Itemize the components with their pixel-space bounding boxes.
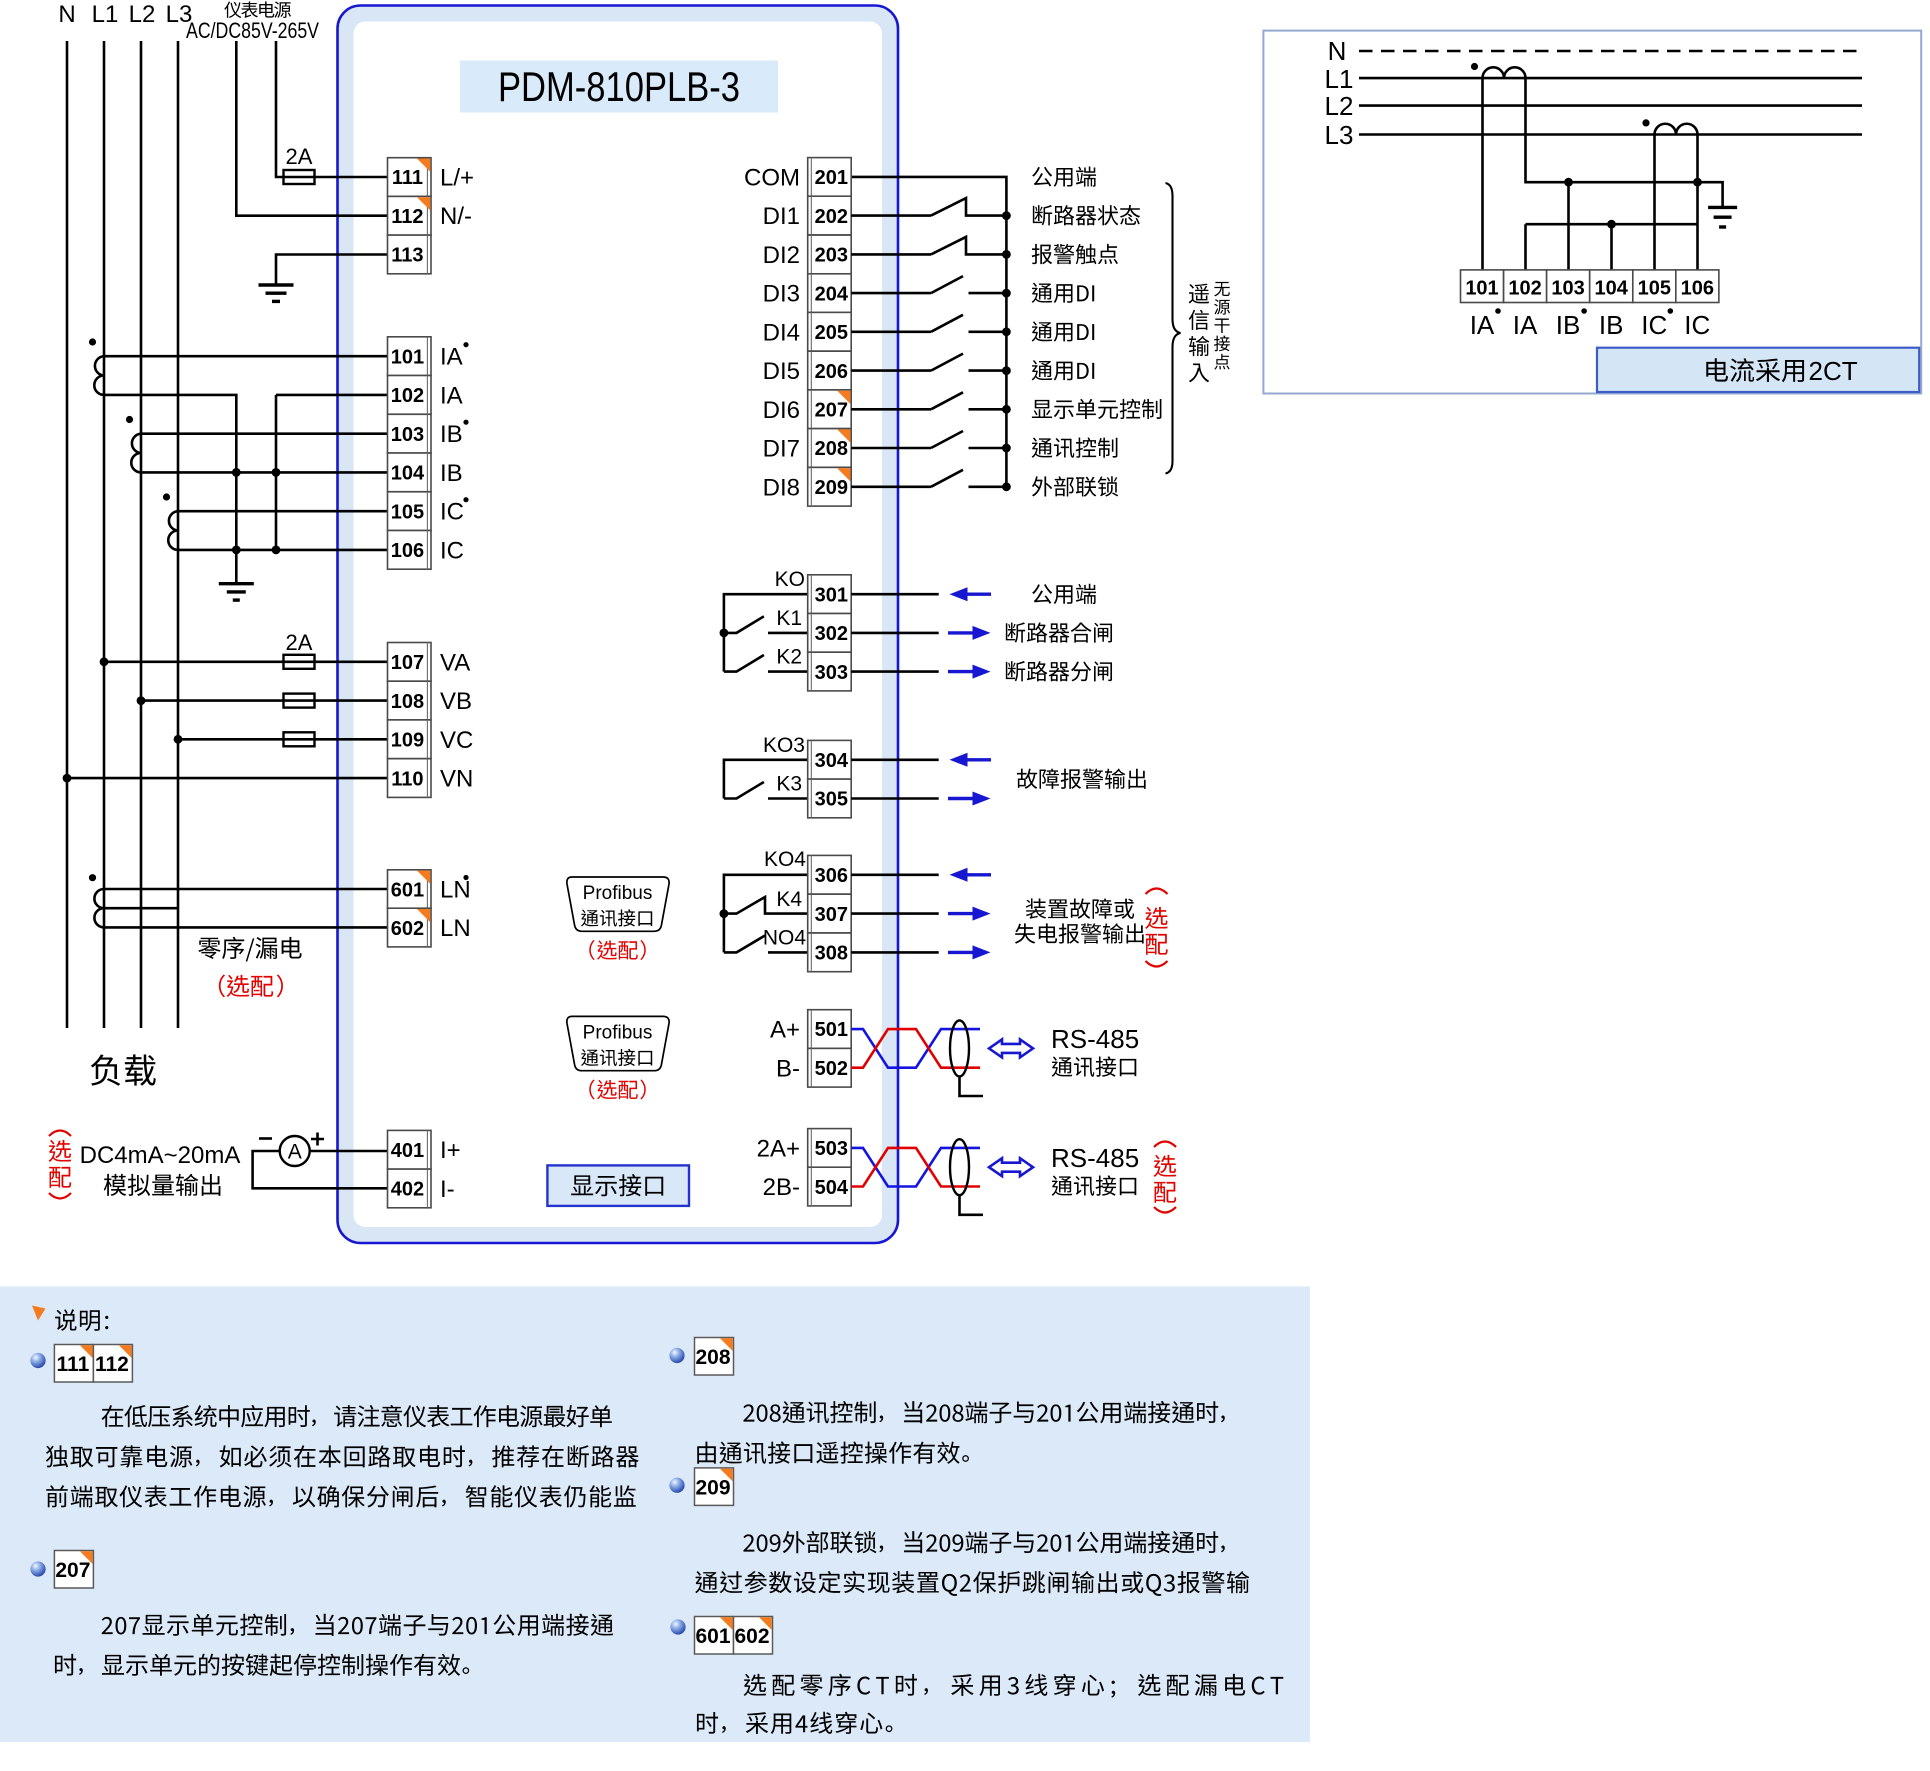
- 2CT terminal 105: [1633, 270, 1676, 303]
- svg-text:DI5: DI5: [763, 358, 800, 385]
- svg-text:201: 201: [815, 167, 848, 189]
- label 202 断路器状态: [1033, 205, 1140, 225]
- 2CT common line B: [1526, 224, 1698, 270]
- svg-text:502: 502: [815, 1058, 848, 1080]
- wire 301 stub: [851, 593, 939, 596]
- label 失电报警输出: [1015, 923, 1144, 943]
- 2CT banner 电流采用2CT: [1597, 348, 1919, 392]
- terminal 104: [388, 453, 432, 492]
- svg-text:202: 202: [815, 206, 848, 228]
- ground symbol CT common: [219, 584, 254, 600]
- label 断路器合闸: [1006, 622, 1112, 642]
- 2CT wire 105 drop: [1653, 135, 1656, 270]
- 2CT terminal 104: [1590, 270, 1633, 303]
- terminal 307: [808, 894, 852, 933]
- svg-text:IB: IB: [1599, 310, 1624, 340]
- svg-text:A: A: [288, 1141, 302, 1164]
- device outline PDM-810PLB-3 rounded rect: [338, 6, 899, 1244]
- label 断路器分闸: [1006, 661, 1112, 681]
- label 模拟量输出: [104, 1174, 221, 1196]
- svg-text:101: 101: [391, 346, 424, 368]
- svg-text:303: 303: [815, 662, 848, 684]
- wire 107 VA: [104, 660, 388, 663]
- terminal 103: [388, 414, 432, 453]
- 2CT junction dot 106 on line A: [1693, 178, 1702, 187]
- note text 111 line3: [46, 1485, 635, 1507]
- note text 601 line2: [697, 1712, 892, 1734]
- 2CT junction dot 104: [1607, 220, 1616, 229]
- svg-text:IA: IA: [1513, 310, 1538, 340]
- svg-text:I-: I-: [440, 1176, 455, 1203]
- svg-text:VC: VC: [440, 727, 473, 754]
- wire 601 LN*: [104, 888, 388, 891]
- terminal 205: [808, 312, 852, 351]
- label 通讯接口 #2: [1052, 1175, 1137, 1195]
- svg-text:208: 208: [815, 438, 848, 460]
- label 负载: [91, 1054, 156, 1085]
- terminal 208: [808, 429, 852, 468]
- tap dot VB: [137, 696, 146, 705]
- junction dot 203: [1002, 250, 1011, 259]
- svg-text:KO4: KO4: [764, 848, 806, 871]
- relay K4 common wire: [724, 875, 808, 953]
- DI contact 203 (closed): [851, 253, 931, 256]
- svg-text:DI3: DI3: [763, 281, 800, 308]
- terminal 501: [808, 1010, 852, 1049]
- tap dot VA: [100, 657, 109, 666]
- svg-text:LN: LN: [440, 877, 471, 904]
- label (选配) profibus2: [589, 1080, 645, 1100]
- terminal 503: [808, 1129, 852, 1168]
- terminal 301: [808, 575, 852, 614]
- svg-text:N: N: [58, 1, 75, 28]
- 2CT CT2 polarity dot: [1642, 119, 1649, 126]
- terminal 108: [388, 681, 432, 720]
- svg-text:DI4: DI4: [763, 319, 800, 346]
- twisted pair RS485-2: [851, 1148, 980, 1187]
- terminal 401: [388, 1130, 432, 1169]
- svg-text:104: 104: [391, 463, 425, 485]
- ammeter minus label: [259, 1137, 272, 1140]
- arrow 303 out: [948, 670, 975, 673]
- double arrow RS485-2: [989, 1158, 1033, 1176]
- 2CT terminal 102: [1504, 270, 1547, 303]
- svg-text:205: 205: [815, 322, 848, 344]
- svg-text:113: 113: [391, 245, 423, 267]
- svg-text:KO: KO: [775, 568, 805, 591]
- terminal 203: [808, 235, 852, 274]
- ammeter plus label: [311, 1133, 324, 1146]
- svg-text:2B-: 2B-: [763, 1174, 800, 1201]
- wire 108 VB: [141, 699, 388, 702]
- wire 305 stub: [851, 797, 939, 800]
- svg-text:DC4mA~20mA: DC4mA~20mA: [80, 1142, 241, 1169]
- junction dot 204: [1002, 289, 1011, 298]
- svg-text:IC: IC: [1684, 310, 1710, 340]
- CT B on L2: [131, 434, 141, 473]
- CT LN (zero-sequence) on L1: [94, 889, 104, 927]
- svg-text:N/-: N/-: [440, 203, 472, 230]
- svg-text:KO3: KO3: [763, 734, 805, 757]
- svg-text:IC: IC: [1641, 310, 1667, 340]
- junction dot K1: [720, 629, 729, 638]
- vertical (选配) relay K4: [1146, 889, 1168, 895]
- shield ground RS485-1: [960, 1076, 984, 1096]
- shield ground RS485-2: [960, 1195, 984, 1215]
- label (选配) zero sequence: [219, 974, 283, 997]
- svg-text:106: 106: [391, 540, 424, 562]
- 2CT junction dot 103: [1564, 178, 1573, 187]
- contact K4 (closed): [724, 897, 808, 914]
- svg-text:107: 107: [391, 652, 424, 674]
- svg-text:IA: IA: [440, 344, 463, 371]
- shield ellipse RS485-1: [950, 1020, 969, 1076]
- relay K3 common wire: [724, 760, 808, 799]
- arrow 301 in: [966, 593, 992, 596]
- terminal 308: [808, 933, 852, 972]
- terminal 107: [388, 643, 432, 682]
- arrow 307 out: [948, 912, 975, 915]
- Profibus connector 2: [567, 1016, 669, 1070]
- svg-text:101: 101: [1465, 278, 1498, 300]
- svg-text:AC/DC85V-265V: AC/DC85V-265V: [186, 18, 319, 43]
- svg-text:209: 209: [695, 1477, 730, 1500]
- label 204 通用DI: [1032, 283, 1095, 303]
- svg-text:L1: L1: [92, 1, 119, 28]
- svg-text:L/+: L/+: [440, 165, 474, 192]
- wire 103 IB*: [141, 432, 388, 435]
- 2CT wire 102 drop + common A: [1526, 78, 1723, 207]
- 2CT CT1 on L1: [1483, 67, 1526, 78]
- tap dot VN: [63, 774, 72, 783]
- 2CT wire 101 drop: [1481, 78, 1484, 270]
- fuse FVC: [284, 732, 315, 746]
- label 209 外部联锁: [1032, 476, 1118, 497]
- svg-text:104: 104: [1595, 278, 1629, 300]
- svg-text:207: 207: [55, 1559, 90, 1582]
- junction dot K4: [720, 909, 729, 918]
- note text 111 line1: [102, 1405, 612, 1427]
- vertical (选配) analog: [49, 1131, 71, 1137]
- terminal 111: [388, 158, 432, 197]
- svg-text:301: 301: [815, 584, 848, 606]
- svg-text:102: 102: [1508, 278, 1541, 300]
- fuse FVB: [284, 694, 315, 708]
- relay K1K2 common wire: [724, 594, 808, 671]
- terminal 112: [388, 196, 432, 235]
- contact K3: [724, 782, 808, 799]
- contact K2: [724, 655, 808, 672]
- svg-text:110: 110: [391, 768, 423, 790]
- note text 208 line1: [743, 1401, 1224, 1423]
- 2CT terminal 106: [1676, 270, 1719, 303]
- svg-text:VB: VB: [440, 688, 472, 715]
- wire 106 IC: [178, 549, 388, 552]
- note text 209 line1: [743, 1531, 1224, 1553]
- bus wire L2: [140, 41, 143, 1028]
- svg-text:207: 207: [815, 400, 848, 422]
- terminal 110: [388, 759, 432, 798]
- svg-text:N: N: [1328, 36, 1347, 66]
- terminal 105: [388, 492, 432, 531]
- svg-text:602: 602: [734, 1625, 769, 1648]
- twisted pair RS485-1: [851, 1029, 980, 1068]
- wire 201 COM to DI bus: [851, 177, 1006, 487]
- svg-text:DI2: DI2: [763, 242, 800, 269]
- svg-text:401: 401: [391, 1140, 424, 1162]
- svg-text:2A: 2A: [286, 630, 313, 655]
- contact NO4: [724, 936, 808, 953]
- svg-text:208: 208: [695, 1346, 730, 1369]
- svg-text:102: 102: [391, 385, 424, 407]
- CT A on L1: [94, 356, 104, 395]
- notes header 说明：: [55, 1309, 108, 1331]
- svg-text:K1: K1: [776, 607, 802, 630]
- terminal 106: [388, 531, 432, 570]
- wire 304 stub: [851, 758, 939, 761]
- svg-text:IC: IC: [440, 537, 464, 564]
- svg-text:105: 105: [1638, 278, 1671, 300]
- bus wire L3: [177, 41, 180, 1028]
- DI contact 209 (open): [851, 485, 931, 488]
- svg-text:DI6: DI6: [763, 397, 800, 424]
- svg-text:302: 302: [815, 623, 848, 645]
- 2CT terminal 101: [1461, 270, 1504, 303]
- svg-text:111: 111: [392, 167, 423, 189]
- tap dot VC: [174, 735, 183, 744]
- terminal 102: [388, 376, 432, 415]
- svg-text:L1: L1: [1325, 64, 1354, 94]
- svg-text:108: 108: [391, 691, 424, 713]
- svg-text:K2: K2: [776, 646, 802, 669]
- Profibus connector 1: [567, 877, 669, 931]
- terminal 601: [388, 870, 432, 909]
- svg-text:306: 306: [815, 865, 848, 887]
- wire 104 IB: [141, 471, 388, 474]
- svg-text:IB: IB: [440, 421, 463, 448]
- wire 302 stub: [851, 632, 939, 635]
- aux power feed wire 1 (to 112): [236, 41, 387, 216]
- junction dot 208: [1002, 444, 1011, 453]
- bus wire N: [66, 41, 69, 1028]
- terminal 303: [808, 652, 852, 691]
- label 仪表电源: [224, 1, 291, 18]
- svg-text:IC: IC: [440, 499, 464, 526]
- svg-text:308: 308: [815, 943, 848, 965]
- svg-text:601: 601: [695, 1625, 730, 1648]
- wire 101 IA*: [104, 355, 388, 358]
- note text 601 line1: [744, 1674, 1284, 1698]
- 2CT wire 104 drop: [1610, 224, 1613, 270]
- aux power feed wire 2 (to 111 via fuse): [276, 41, 388, 177]
- wire 102 IA left segment: [104, 395, 236, 584]
- svg-text:204: 204: [815, 283, 849, 305]
- junction dot 202: [1002, 211, 1011, 220]
- svg-text:602: 602: [391, 918, 424, 940]
- svg-text:IA: IA: [440, 382, 463, 409]
- CT C polarity dot: [163, 493, 170, 500]
- 2CT diagram outer box: [1263, 31, 1921, 394]
- wire 303 stub: [851, 670, 939, 673]
- DI brace: [1166, 183, 1181, 474]
- note bullet 208: [669, 1348, 684, 1363]
- 2CT ground symbol: [1708, 207, 1737, 227]
- terminal 502: [808, 1048, 852, 1087]
- terminal 204: [808, 274, 852, 313]
- svg-text:112: 112: [391, 206, 423, 228]
- svg-text:DI7: DI7: [763, 436, 800, 463]
- label 203 报警触点: [1032, 244, 1118, 264]
- label 201 公用端: [1032, 166, 1096, 186]
- label (选配) profibus1: [589, 940, 645, 960]
- label 故障报警输出: [1017, 769, 1146, 789]
- svg-text:111: 111: [57, 1353, 90, 1376]
- svg-text:DI8: DI8: [763, 474, 800, 501]
- label 装置故障或: [1026, 898, 1134, 918]
- wire 110 VN: [67, 777, 388, 780]
- svg-text:IA: IA: [1470, 310, 1495, 340]
- terminal 305: [808, 779, 852, 818]
- label 208 通讯控制: [1032, 437, 1118, 457]
- label 206 通用DI: [1032, 360, 1095, 380]
- 2CT wire 103 drop: [1567, 182, 1570, 270]
- junction dot 205: [1002, 327, 1011, 336]
- contact K1: [724, 616, 808, 633]
- svg-text:I+: I+: [440, 1137, 461, 1164]
- terminal 202: [808, 196, 852, 235]
- 2CT bus L1: [1359, 77, 1862, 80]
- svg-text:RS-485: RS-485: [1051, 1143, 1139, 1173]
- svg-text:209: 209: [815, 477, 848, 499]
- arrow 306 in: [966, 873, 992, 876]
- svg-text:L2: L2: [1325, 91, 1354, 121]
- arrow 308 out: [948, 951, 975, 954]
- vertical (选配) RS485-2: [1154, 1142, 1176, 1148]
- 2CT bus N dashed: [1359, 50, 1865, 53]
- svg-text:L3: L3: [1325, 120, 1354, 150]
- vertical label 无源干接点: [1214, 282, 1230, 297]
- svg-text:K3: K3: [776, 773, 802, 796]
- terminal 302: [808, 614, 852, 653]
- wire 113 to earth: [276, 255, 388, 286]
- svg-text:IB: IB: [1556, 310, 1581, 340]
- note bullet 209: [669, 1478, 684, 1493]
- 2CT bus L2: [1359, 104, 1862, 107]
- note bullet 111/112: [30, 1353, 45, 1368]
- wire LN mid tap to L3: [104, 907, 178, 910]
- note bullet 207: [30, 1561, 45, 1576]
- DI contact 208 (open): [851, 447, 931, 450]
- junction dot 206: [1002, 366, 1011, 375]
- title box PDM-810PLB-3: [460, 61, 778, 113]
- 2CT CT1 polarity dot: [1471, 63, 1478, 70]
- junction dots CT common: [232, 468, 241, 477]
- wire 306 stub: [851, 873, 939, 876]
- svg-text:PDM-810PLB-3: PDM-810PLB-3: [498, 63, 740, 110]
- svg-text:504: 504: [815, 1177, 849, 1199]
- note text 208 line2: [697, 1442, 969, 1464]
- note text 207 line1: [102, 1614, 614, 1636]
- svg-text:VN: VN: [440, 766, 473, 793]
- svg-text:K4: K4: [776, 888, 802, 911]
- svg-text:103: 103: [391, 424, 424, 446]
- label 207 显示单元控制: [1032, 399, 1162, 419]
- ground symbol at 113: [259, 285, 294, 301]
- svg-text:307: 307: [815, 904, 848, 926]
- svg-text:A+: A+: [770, 1017, 800, 1044]
- svg-text:IB: IB: [440, 460, 463, 487]
- svg-text:2CT: 2CT: [1809, 356, 1858, 386]
- svg-text:NO4: NO4: [763, 927, 807, 950]
- svg-text:LN: LN: [440, 915, 471, 942]
- terminal 207: [808, 390, 852, 429]
- note badge 602: [734, 1617, 773, 1655]
- terminal 206: [808, 351, 852, 390]
- DI contact 206 (open): [851, 369, 931, 372]
- DI contact 202 (closed): [851, 214, 931, 217]
- note badge 209: [695, 1468, 734, 1506]
- svg-text:RS-485: RS-485: [1051, 1024, 1139, 1054]
- shield ellipse RS485-2: [950, 1139, 969, 1195]
- 2CT CT2 on L3: [1655, 124, 1698, 135]
- display port box 显示接口: [547, 1165, 689, 1206]
- arrow 304 in: [966, 758, 992, 761]
- arrow 305 out: [948, 797, 975, 800]
- svg-text:501: 501: [815, 1019, 848, 1041]
- svg-text:2A+: 2A+: [757, 1135, 800, 1162]
- junction dot 209: [1002, 482, 1011, 491]
- wire 109 VC: [178, 738, 388, 741]
- svg-text:103: 103: [1551, 278, 1584, 300]
- label 通讯接口 #1: [1052, 1056, 1137, 1076]
- terminal 504: [808, 1167, 852, 1206]
- svg-text:COM: COM: [744, 164, 800, 191]
- wire 602 LN: [104, 926, 388, 929]
- svg-text:503: 503: [815, 1138, 848, 1160]
- double arrow RS485-1: [989, 1039, 1033, 1057]
- svg-text:Profibus: Profibus: [583, 1023, 653, 1044]
- wire 105 IC*: [178, 510, 388, 513]
- junction dot 207: [1002, 405, 1011, 414]
- svg-text:109: 109: [391, 730, 424, 752]
- terminal 201: [808, 158, 852, 197]
- terminal 602: [388, 908, 432, 947]
- note text 111 line2: [46, 1445, 639, 1467]
- terminal 101: [388, 337, 432, 376]
- wire 307 stub: [851, 912, 939, 915]
- svg-text:203: 203: [815, 245, 848, 267]
- DI contact 207 (open): [851, 408, 931, 411]
- arrow 302 out: [948, 631, 975, 634]
- svg-text:Profibus: Profibus: [583, 883, 653, 904]
- svg-text:B-: B-: [776, 1055, 800, 1082]
- terminal 306: [808, 855, 852, 894]
- svg-text:DI1: DI1: [763, 203, 800, 230]
- CT A polarity dot: [89, 338, 96, 345]
- CT LN polarity dot: [89, 874, 96, 881]
- svg-text:2A: 2A: [286, 144, 313, 169]
- svg-text:206: 206: [815, 361, 848, 383]
- svg-text:402: 402: [391, 1179, 424, 1201]
- wire 402 I-: [253, 1151, 388, 1188]
- notes header flag: [32, 1306, 46, 1321]
- 2CT wire 106 drop: [1696, 135, 1699, 270]
- DI contact 205 (open): [851, 330, 931, 333]
- fuse FVA: [284, 655, 315, 669]
- wire 401 I+: [310, 1150, 388, 1153]
- svg-text:304: 304: [815, 750, 849, 772]
- 2CT terminal 103: [1547, 270, 1590, 303]
